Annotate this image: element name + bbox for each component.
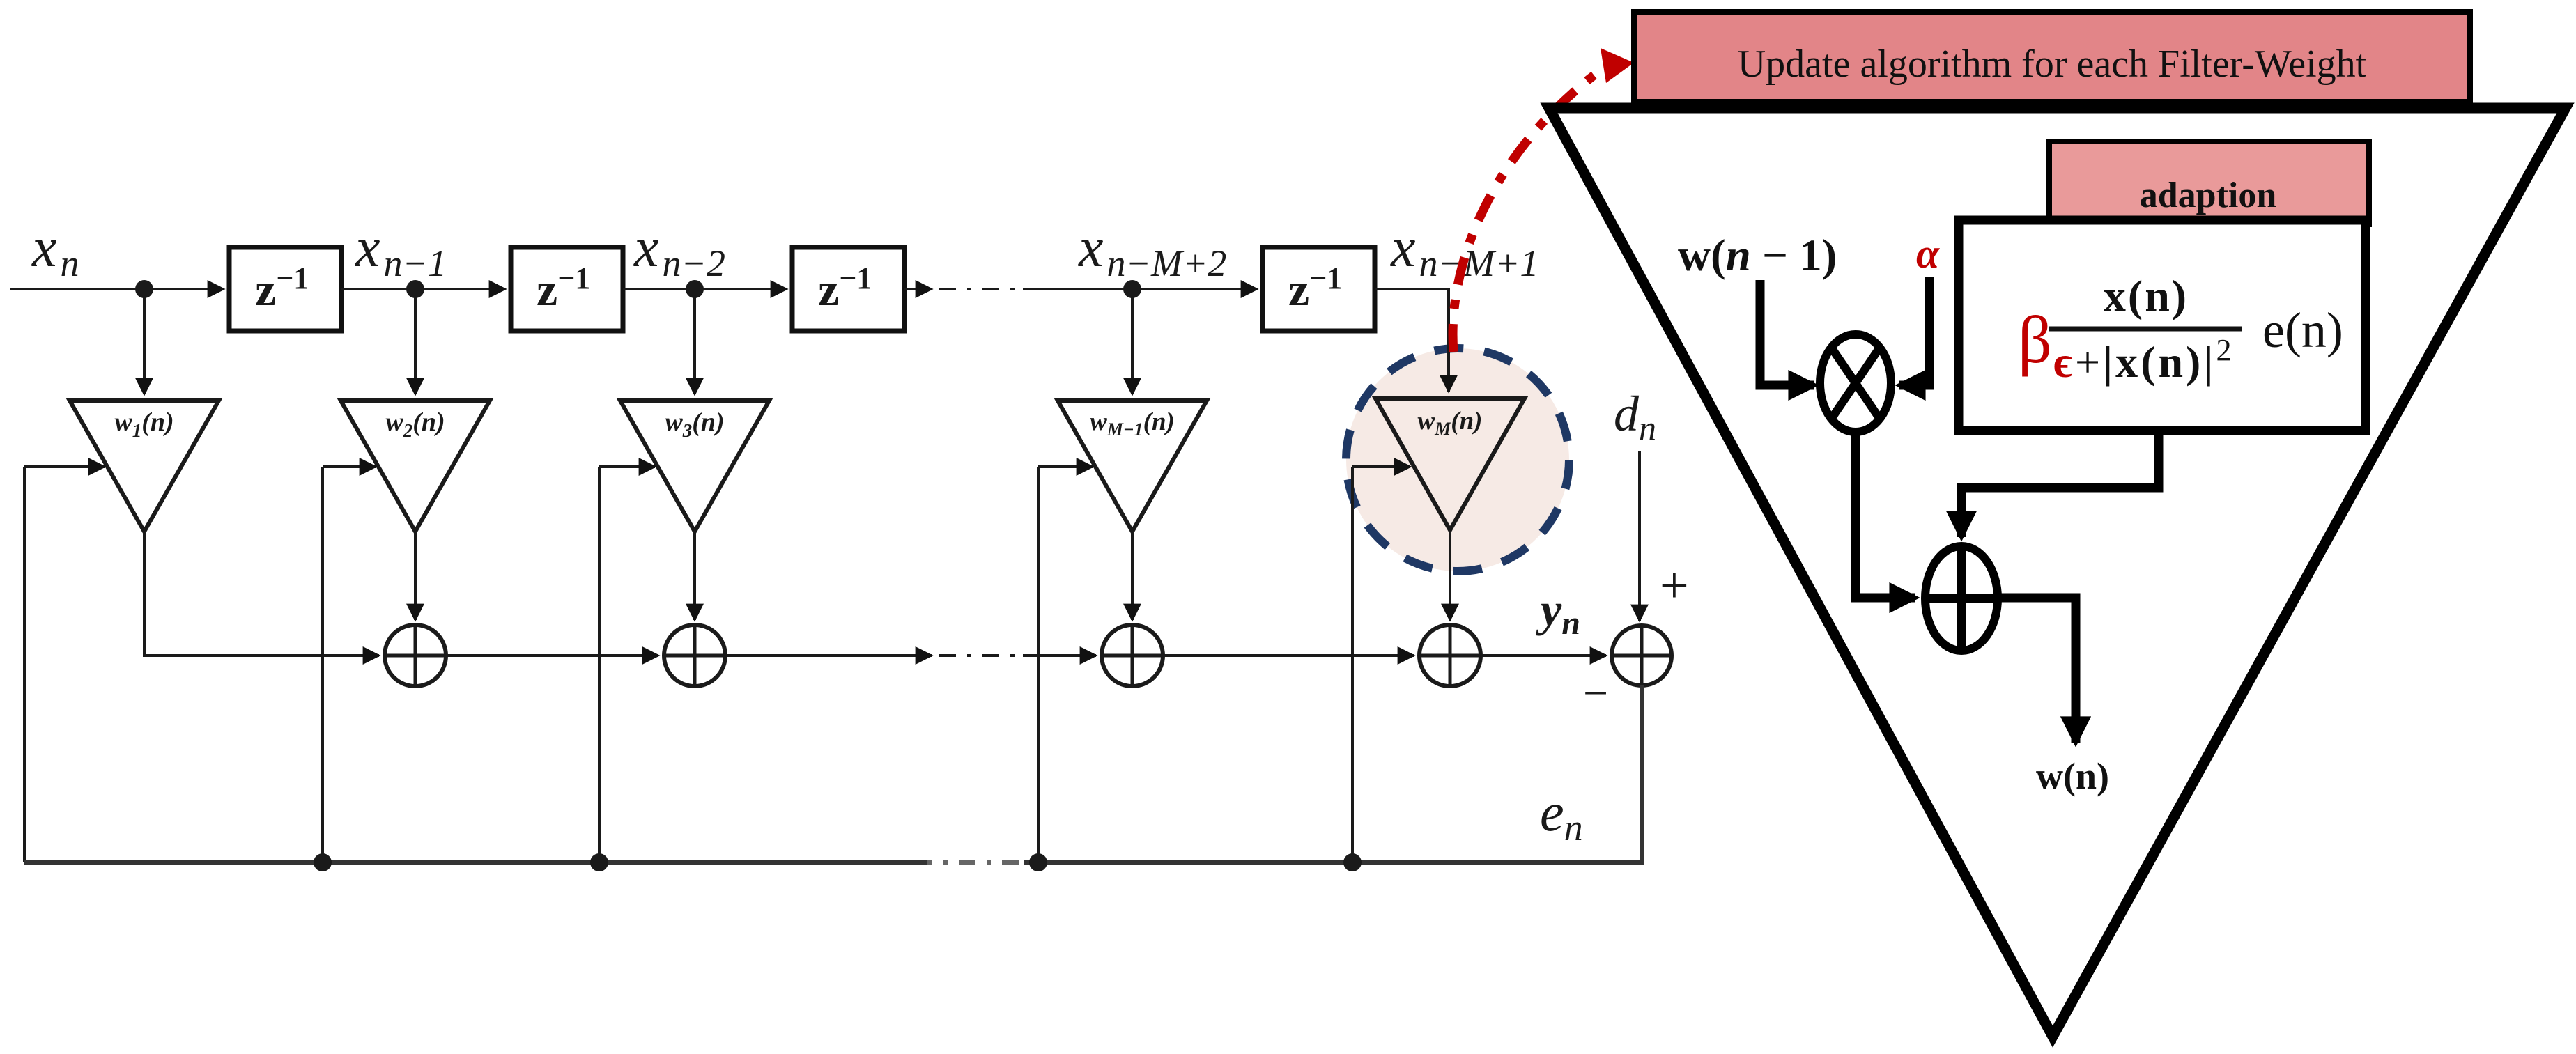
wire Z3 dotted continuation <box>904 288 1257 290</box>
delay block Z1 <box>229 247 341 331</box>
svg-text:w(n): w(n) <box>2036 755 2109 797</box>
wire feedback vertical to W2 <box>321 467 324 862</box>
adder A1 <box>1925 546 1998 651</box>
minus sign label <box>1583 668 1608 718</box>
wire adder S1 to adder S2 <box>446 654 658 657</box>
adder S3 <box>1102 625 1163 686</box>
wire adder S4 to final adder yn <box>1481 654 1606 657</box>
wire W3 output down to adder S2 <box>693 532 696 620</box>
wire Z2 to Z3 <box>623 288 787 290</box>
wire feedback arrow into WM-1 <box>1038 465 1093 468</box>
tap weight WM triangle <box>1375 398 1525 530</box>
node A junction dot <box>135 280 153 298</box>
wire node D down to WM-1 <box>1131 289 1134 394</box>
svg-text:β: β <box>2018 302 2052 377</box>
formula denominator <box>2053 333 2234 387</box>
wire W1 output to adder S1 <box>144 532 379 656</box>
adder S5 final <box>1612 626 1672 685</box>
svg-text:+: + <box>1660 557 1689 614</box>
wire node C down to W3 <box>693 289 696 394</box>
wire input xn to Z1 <box>10 288 224 290</box>
wire Z4 to WM input <box>1375 289 1449 392</box>
wire w(n-1) into multiplier <box>1760 280 1814 385</box>
node xn-1 label <box>355 217 447 284</box>
svg-text:Update algorithm for each Filt: Update algorithm for each Filter-Weight <box>1738 42 2367 86</box>
wire feedback vertical to WM <box>1351 467 1354 862</box>
junction dot bus WM <box>1343 853 1362 871</box>
delay block Z4 <box>1263 247 1375 331</box>
plus sign label <box>1660 557 1689 614</box>
node D junction dot <box>1123 280 1141 298</box>
wire error bus left segment <box>24 860 927 865</box>
wire node B down to W2 <box>414 289 417 394</box>
multiplier M1 <box>1820 334 1891 432</box>
wire dn down to final adder <box>1638 451 1641 621</box>
junction dot bus W3 <box>590 853 608 871</box>
svg-text:w(n − 1): w(n − 1) <box>1678 231 1837 281</box>
svg-text:w2(n): w2(n) <box>385 408 445 441</box>
wire formula box down into adder A1 <box>1961 431 2159 537</box>
adder S4 <box>1419 625 1481 686</box>
wire alpha into multiplier <box>1899 277 1929 385</box>
svg-text:e(n): e(n) <box>2262 302 2343 358</box>
delay block Z3 <box>792 247 904 331</box>
wire feedback arrow into W3 <box>599 465 655 468</box>
node xn-2 label <box>633 217 725 284</box>
wire error bus dotted segment <box>924 860 1019 865</box>
red dashed callout arrow <box>1453 48 1634 352</box>
node en label <box>1540 782 1583 848</box>
funnel triangle outline <box>1549 108 2566 1037</box>
formula fraction bar <box>2049 327 2242 332</box>
formula numerator <box>2104 271 2189 320</box>
node dn label <box>1614 386 1656 447</box>
junction dot bus WM-1 <box>1029 853 1047 871</box>
delay block Z2 <box>511 247 623 331</box>
node xn-M+1 label <box>1390 217 1538 284</box>
svg-text:ϵ+|x(n)|2: ϵ+|x(n)|2 <box>2053 333 2234 387</box>
highlight circle fill around WM <box>1346 348 1569 571</box>
update algorithm bar <box>1634 12 2470 102</box>
svg-text:adaption: adaption <box>2140 176 2277 215</box>
adaption bar <box>2049 141 2369 224</box>
tap weight WM-1 triangle <box>1058 401 1207 532</box>
wire error en from final adder down <box>1024 685 1642 862</box>
node B junction dot <box>406 280 424 298</box>
node w(n-1) label <box>1678 231 1837 281</box>
node xn input label <box>31 217 79 284</box>
wire feedback vertical to W3 <box>598 467 601 862</box>
node xn-M+2 label <box>1078 217 1226 284</box>
wire feedback arrow into W1 <box>24 465 105 468</box>
wire multiplier down to adder A1 <box>1856 432 1915 598</box>
formula e(n) <box>2262 302 2343 358</box>
node C junction dot <box>686 280 704 298</box>
wire feedback vertical to W1 <box>23 467 26 862</box>
node yn label <box>1536 583 1580 642</box>
tap weight W3 triangle <box>620 401 769 532</box>
wire feedback arrow into W2 <box>323 465 376 468</box>
wire feedback arrow into WM <box>1352 465 1410 468</box>
formula beta <box>2018 302 2052 377</box>
wire node A down to W1 <box>143 289 146 394</box>
wire WM output down to adder S4 <box>1449 530 1451 620</box>
adder S1 <box>385 625 446 686</box>
svg-text:x(n): x(n) <box>2104 271 2189 320</box>
highlight dashed circle around WM <box>1346 348 1569 571</box>
junction dot bus W2 <box>314 853 332 871</box>
node alpha label <box>1916 231 1940 277</box>
adder S2 <box>664 625 725 686</box>
wire adder S3 to adder S4 <box>1163 654 1414 657</box>
node w(n) label <box>2036 755 2109 797</box>
svg-text:w1(n): w1(n) <box>114 408 173 441</box>
svg-text:−: − <box>1583 668 1608 718</box>
svg-text:w3(n): w3(n) <box>665 408 724 441</box>
tap weight W2 triangle <box>341 401 490 532</box>
formula box <box>1959 220 2366 431</box>
wire W2 output down to adder S1 <box>414 532 417 620</box>
wire adder S2 dotted to adder S3 <box>725 654 1096 657</box>
svg-text:α: α <box>1916 231 1940 277</box>
wire WM-1 output down to adder S3 <box>1131 532 1134 620</box>
wire adder A1 to w(n) output <box>1998 598 2076 743</box>
tap weight W1 triangle <box>70 401 219 532</box>
wire Z1 to Z2 <box>341 288 505 290</box>
wire feedback vertical to WM-1 <box>1037 467 1040 862</box>
